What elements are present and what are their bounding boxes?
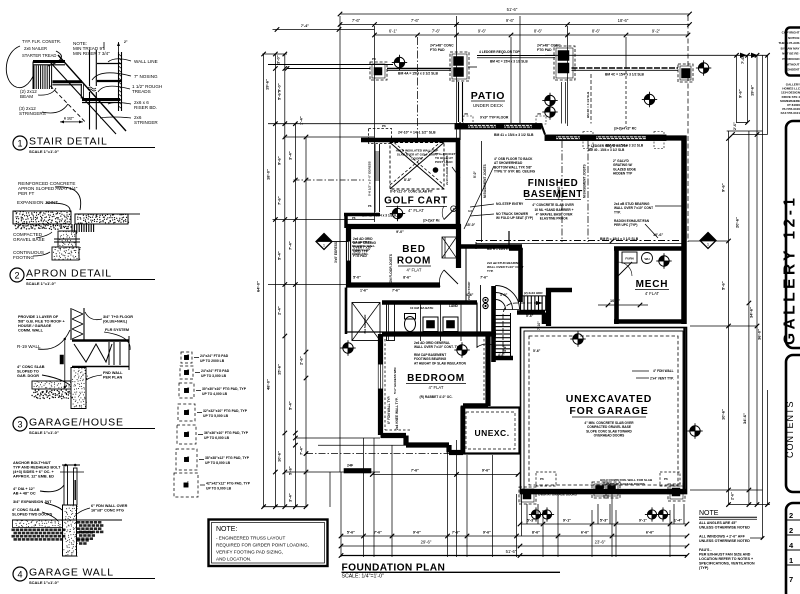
svg-text:9'-6": 9'-6" bbox=[478, 28, 487, 33]
crosshair symbol patio bbox=[642, 92, 657, 107]
svg-text:4" FLAT: 4" FLAT bbox=[407, 268, 422, 273]
garage wall detail drawing bbox=[12, 461, 128, 557]
title block: plan name bbox=[782, 121, 800, 348]
svg-text:BM R = 15/4 x 3 1/2 SLB: BM R = 15/4 x 3 1/2 SLB bbox=[487, 247, 524, 251]
pad D drop lines bbox=[459, 74, 592, 124]
svg-text:9'-6": 9'-6" bbox=[277, 156, 282, 165]
svg-text:NO-STEP ENTRY: NO-STEP ENTRY bbox=[496, 202, 524, 206]
golf cart room label bbox=[384, 196, 448, 214]
crosshair at golf cart bbox=[390, 206, 405, 221]
svg-text:34'-6": 34'-6" bbox=[742, 413, 747, 424]
svg-text:TYPE 'X' GYP. BD. CEILING: TYPE 'X' GYP. BD. CEILING bbox=[494, 170, 536, 174]
garage outline bbox=[521, 328, 688, 495]
crosshairs at garage doors right bbox=[645, 507, 659, 521]
stair upper flight treads bbox=[520, 296, 547, 310]
svg-text:APPROX. 12" EMB. ED: APPROX. 12" EMB. ED bbox=[13, 475, 54, 479]
svg-text:2'x4' VENT TYP.: 2'x4' VENT TYP. bbox=[650, 377, 674, 381]
svg-text:UP TO 5,000 LB: UP TO 5,000 LB bbox=[203, 414, 229, 418]
svg-text:REQUIRED FOR GIRDER POINT LOAD: REQUIRED FOR GIRDER POINT LOADING, bbox=[216, 543, 309, 548]
svg-text:34'-6": 34'-6" bbox=[749, 307, 754, 318]
svg-text:SLOPED TO: SLOPED TO bbox=[17, 370, 39, 374]
note box bbox=[209, 520, 328, 567]
svg-text:PER PLAN: PER PLAN bbox=[103, 376, 122, 380]
svg-text:M BASEMENT JOISTS: M BASEMENT JOISTS bbox=[483, 164, 487, 198]
svg-text:TYP AND REDHEAD BOLT: TYP AND REDHEAD BOLT bbox=[13, 466, 61, 470]
finished basement label bbox=[523, 178, 583, 221]
svg-text:FURN: FURN bbox=[625, 257, 633, 261]
svg-text:(GLUE+NAIL): (GLUE+NAIL) bbox=[103, 320, 128, 324]
svg-text:3: 3 bbox=[17, 420, 22, 430]
patio notes bbox=[435, 144, 636, 178]
svg-text:NOTE:: NOTE: bbox=[216, 526, 237, 533]
svg-text:8'-6": 8'-6" bbox=[592, 28, 601, 33]
svg-text:1: 1 bbox=[17, 139, 22, 149]
svg-text:9'-6": 9'-6" bbox=[721, 183, 726, 192]
svg-text:2'-4": 2'-4" bbox=[277, 306, 282, 315]
svg-text:HIDDEN TYP: HIDDEN TYP bbox=[613, 172, 633, 176]
svg-text:F: F bbox=[188, 430, 190, 434]
svg-text:MA SHOWER: MA SHOWER bbox=[363, 314, 367, 334]
svg-text:(3+3)x4'x3" RC: (3+3)x4'x3" RC bbox=[614, 127, 637, 131]
svg-text:BM 40 - 15/4 x 3 1/2 SLB: BM 40 - 15/4 x 3 1/2 SLB bbox=[588, 148, 625, 152]
stair lower flight treads bbox=[496, 313, 511, 356]
svg-text:6 1/2": 6 1/2" bbox=[64, 117, 74, 121]
svg-text:7'-4": 7'-4" bbox=[301, 24, 309, 28]
svg-text:18'-0": 18'-0" bbox=[266, 169, 271, 180]
svg-text:2x6 NAILER: 2x6 NAILER bbox=[24, 46, 47, 51]
svg-text:WALL OVER 7'x10" CONT. TYP.: WALL OVER 7'x10" CONT. TYP. bbox=[414, 345, 462, 349]
crosshair in garage bbox=[570, 331, 585, 346]
svg-text:WITHOUT: WITHOUT bbox=[786, 62, 800, 66]
footing pad P3 (double) bbox=[554, 46, 575, 80]
svg-text:OVER AT GARAGE DOORS: OVER AT GARAGE DOORS bbox=[538, 493, 577, 497]
svg-text:W/ FOLD UP SEAT (TYP): W/ FOLD UP SEAT (TYP) bbox=[496, 216, 533, 220]
stair detail drawing bbox=[6, 39, 162, 134]
svg-text:TYP.: TYP. bbox=[614, 210, 621, 214]
svg-text:MIN RISER 7 3/4": MIN RISER 7 3/4" bbox=[73, 51, 110, 56]
svg-text:3'x5' EGRESS: 3'x5' EGRESS bbox=[334, 242, 338, 263]
svg-text:7'-10": 7'-10" bbox=[537, 321, 541, 330]
svg-text:BM 4D = 3 1/2 SLB: BM 4D = 3 1/2 SLB bbox=[586, 91, 590, 118]
hall fixtures small circles bbox=[449, 297, 488, 308]
svg-text:STRINGERS: STRINGERS bbox=[19, 111, 46, 116]
svg-text:P6: P6 bbox=[465, 112, 469, 116]
svg-text:BM 4C = 15/4 x 3 1/2 SLB: BM 4C = 15/4 x 3 1/2 SLB bbox=[605, 73, 645, 77]
svg-text:32"x32"x10" FTG PAD, TYP: 32"x32"x10" FTG PAD, TYP bbox=[203, 409, 248, 413]
title block: sheet cells bbox=[786, 503, 800, 594]
girder line BM A with footing pads (top row) bbox=[285, 50, 678, 77]
svg-text:ALL WINDOWS + 2'-6" AFF: ALL WINDOWS + 2'-6" AFF bbox=[699, 535, 746, 539]
svg-text:POUR STRIP: POUR STRIP bbox=[467, 282, 471, 300]
svg-text:UP TO 6,000 LB: UP TO 6,000 LB bbox=[204, 436, 230, 440]
crosshair symbol top-left bbox=[392, 55, 407, 70]
svg-text:ROOM: ROOM bbox=[397, 256, 431, 267]
apron detail title bbox=[10, 268, 24, 282]
foundation plan title bbox=[342, 563, 561, 580]
svg-text:BY LAW MAY: BY LAW MAY bbox=[781, 46, 800, 50]
svg-text:2: 2 bbox=[789, 526, 793, 535]
svg-text:5'-6": 5'-6" bbox=[721, 281, 726, 290]
svg-text:9'-6": 9'-6" bbox=[482, 468, 490, 472]
girder BM R dashed bbox=[476, 231, 683, 249]
svg-text:UP TO 4,000 LB: UP TO 4,000 LB bbox=[202, 392, 228, 396]
svg-text:BM 41 = 15/4 x 3 1/2 SLB: BM 41 = 15/4 x 3 1/2 SLB bbox=[494, 133, 534, 137]
svg-text:8'-6": 8'-6" bbox=[403, 276, 411, 280]
svg-text:9'-1": 9'-1" bbox=[639, 519, 647, 523]
garage door pads bbox=[519, 472, 685, 504]
svg-text:7'-6": 7'-6" bbox=[432, 28, 441, 33]
stair enclosure walls bbox=[494, 286, 573, 362]
svg-text:7'-6": 7'-6" bbox=[277, 196, 282, 205]
svg-text:9'-6": 9'-6" bbox=[413, 531, 421, 535]
svg-text:ALL ANGLES ARE 45°: ALL ANGLES ARE 45° bbox=[699, 521, 737, 525]
svg-text:PER FT: PER FT bbox=[18, 191, 35, 196]
svg-text:10 GM MA BATH: 10 GM MA BATH bbox=[410, 306, 433, 310]
right side dimension chains bbox=[545, 53, 770, 540]
svg-text:FTG PAD: FTG PAD bbox=[430, 48, 445, 52]
svg-text:2: 2 bbox=[14, 271, 19, 281]
stair detail title bbox=[13, 136, 27, 150]
mech room walls bbox=[614, 249, 683, 325]
svg-text:F: F bbox=[188, 353, 190, 357]
svg-text:9'-0": 9'-0" bbox=[277, 83, 282, 92]
svg-text:DOORS: DOORS bbox=[411, 157, 422, 161]
svg-text:9'-0": 9'-0" bbox=[396, 230, 404, 234]
finished basement west-mid walls bbox=[460, 141, 588, 302]
svg-text:GARAGE WALL: GARAGE WALL bbox=[29, 567, 114, 579]
svg-text:COPYRIGHT: COPYRIGHT bbox=[782, 31, 800, 35]
golf cart north wall bbox=[361, 122, 460, 226]
svg-text:- ENGINEERED TRUSS LAYOUT: - ENGINEERED TRUSS LAYOUT bbox=[216, 536, 285, 541]
lower bedroom label bbox=[406, 373, 466, 399]
svg-text:OVERHEAD DOORS: OVERHEAD DOORS bbox=[594, 434, 625, 438]
svg-text:F: F bbox=[187, 481, 189, 485]
upper bedroom label bbox=[360, 244, 431, 293]
svg-text:PER UPC (TYP): PER UPC (TYP) bbox=[614, 223, 637, 227]
svg-text:STARTER TREAD: STARTER TREAD bbox=[22, 53, 56, 58]
svg-text:P6: P6 bbox=[540, 477, 544, 481]
svg-text:UNDER DECK: UNDER DECK bbox=[473, 103, 504, 108]
svg-text:64'-0": 64'-0" bbox=[256, 281, 261, 292]
svg-text:APRON DETAIL: APRON DETAIL bbox=[26, 268, 112, 280]
svg-text:BASEMENT: BASEMENT bbox=[523, 189, 583, 200]
svg-text:5'-6": 5'-6" bbox=[347, 531, 355, 535]
svg-text:4" FLAT: 4" FLAT bbox=[408, 208, 424, 213]
svg-text:7'-6": 7'-6" bbox=[480, 276, 488, 280]
svg-text:15'-0": 15'-0" bbox=[466, 223, 476, 227]
extra small annotations bbox=[352, 214, 541, 358]
svg-text:CONTENTS: CONTENTS bbox=[785, 401, 795, 459]
svg-text:FND WALL: FND WALL bbox=[103, 371, 123, 375]
crosshair lower bedroom bbox=[454, 342, 469, 357]
garage/house detail drawing bbox=[17, 308, 133, 409]
svg-text:10'-6": 10'-6" bbox=[277, 451, 282, 462]
unexcavated label bbox=[566, 393, 652, 438]
svg-text:3'-0": 3'-0" bbox=[276, 55, 281, 64]
svg-text:FTG PAD: FTG PAD bbox=[537, 48, 552, 52]
svg-text:TYP. FLR. CONSTR.: TYP. FLR. CONSTR. bbox=[22, 39, 61, 44]
svg-text:4 LEDGER REQD-ON TOP: 4 LEDGER REQD-ON TOP bbox=[479, 50, 520, 54]
svg-text:2'-6": 2'-6" bbox=[299, 356, 304, 365]
crosshair right of garage bbox=[687, 423, 702, 438]
svg-text:BM 4C = 15/4 x 3 1/2 SLB: BM 4C = 15/4 x 3 1/2 SLB bbox=[490, 60, 528, 64]
svg-text:DN FLOOR JOISTS: DN FLOOR JOISTS bbox=[389, 254, 393, 283]
basement northeast wall corner bbox=[664, 135, 686, 140]
svg-text:5'-4": 5'-4" bbox=[288, 401, 293, 410]
svg-text:9'-1": 9'-1" bbox=[563, 519, 571, 523]
svg-text:THESE PLANS: THESE PLANS bbox=[778, 41, 799, 45]
title block: copyright box bbox=[778, 28, 800, 76]
svg-text:P6: P6 bbox=[368, 204, 372, 208]
svg-text:3'-4": 3'-4" bbox=[288, 151, 293, 160]
svg-text:RISER BD.: RISER BD. bbox=[134, 105, 157, 110]
svg-text:8'-8": 8'-8" bbox=[404, 178, 412, 182]
lower bedroom walls bbox=[378, 334, 496, 453]
bottom dimension lines bbox=[330, 438, 689, 558]
svg-text:10'-6": 10'-6" bbox=[721, 409, 726, 420]
svg-text:5'-6": 5'-6" bbox=[533, 349, 541, 353]
svg-text:3/4" T+G FLOOR: 3/4" T+G FLOOR bbox=[103, 315, 133, 319]
svg-text:PRODUCED: PRODUCED bbox=[782, 57, 800, 61]
svg-text:4: 4 bbox=[17, 570, 22, 580]
svg-text:GRAVEL BASE: GRAVEL BASE bbox=[13, 237, 45, 242]
crosshair pair at patio wall bbox=[542, 93, 557, 108]
note text at upper bedroom wall bbox=[353, 237, 376, 258]
right note block bbox=[699, 510, 757, 570]
svg-text:MECH: MECH bbox=[636, 279, 669, 290]
svg-text:19'-6": 19'-6" bbox=[265, 79, 270, 90]
svg-text:NOTE: NOTE bbox=[699, 510, 719, 517]
svg-text:ANCHOR BOLT+NUT: ANCHOR BOLT+NUT bbox=[13, 461, 51, 465]
svg-text:+4" RISE: +4" RISE bbox=[557, 187, 561, 200]
svg-text:SPECIFICATIONS, VENTILATION: SPECIFICATIONS, VENTILATION bbox=[699, 562, 755, 566]
section diamond right bbox=[700, 233, 716, 249]
svg-text:CONSENT: CONSENT bbox=[785, 68, 800, 72]
svg-text:7: 7 bbox=[789, 575, 793, 584]
upper bedroom walls bbox=[346, 225, 461, 288]
svg-text:2": 2" bbox=[124, 40, 128, 44]
svg-text:29'-6": 29'-6" bbox=[421, 540, 432, 545]
svg-text:P6: P6 bbox=[352, 216, 356, 220]
hall notes bbox=[487, 261, 524, 273]
svg-text:5/8" G.B. FILE TO ROOF +: 5/8" G.B. FILE TO ROOF + bbox=[18, 320, 66, 324]
svg-text:FTG PAD: FTG PAD bbox=[353, 254, 367, 258]
svg-text:19'-6": 19'-6" bbox=[750, 85, 755, 96]
bath cells bbox=[352, 303, 433, 341]
basement interior notes bbox=[464, 157, 536, 229]
svg-text:GARAGE/HOUSE: GARAGE/HOUSE bbox=[29, 417, 124, 429]
svg-text:POST LOAD: POST LOAD bbox=[435, 160, 453, 164]
svg-text:VERIFY FOOTING PAD SIZING,: VERIFY FOOTING PAD SIZING, bbox=[216, 550, 283, 555]
svg-text:BM R = 15/4 x 3 1/2 SLB: BM R = 15/4 x 3 1/2 SLB bbox=[600, 237, 639, 241]
svg-text:FAX 555-0101: FAX 555-0101 bbox=[781, 111, 800, 115]
garage/house detail title bbox=[13, 417, 27, 431]
svg-text:7'-6": 7'-6" bbox=[740, 55, 745, 64]
svg-text:5'x7' EGRESS WIN: 5'x7' EGRESS WIN bbox=[393, 368, 397, 394]
svg-text:F: F bbox=[188, 455, 190, 459]
svg-text:24'-10" = 14'-1 1/2" SLB: 24'-10" = 14'-1 1/2" SLB bbox=[398, 131, 436, 135]
svg-text:P6: P6 bbox=[664, 477, 668, 481]
svg-text:COMM. WALL: COMM. WALL bbox=[18, 329, 44, 333]
unexc room bbox=[462, 408, 520, 454]
svg-text:SCALE 1"=1'-0": SCALE 1"=1'-0" bbox=[29, 149, 59, 154]
garage wall detail title bbox=[13, 567, 27, 581]
svg-text:2'-6": 2'-6" bbox=[733, 122, 737, 130]
svg-text:4" FDN WALL: 4" FDN WALL bbox=[653, 369, 674, 373]
svg-text:NOT BE RE-: NOT BE RE- bbox=[782, 52, 799, 56]
svg-text:4" CONC SLAB: 4" CONC SLAB bbox=[17, 365, 45, 369]
crosshair left of bedroom bbox=[340, 340, 355, 355]
patio label bbox=[471, 90, 506, 108]
svg-text:5'-4": 5'-4" bbox=[277, 251, 282, 260]
left side dimension chains bbox=[256, 24, 520, 509]
svg-text:7'-6": 7'-6" bbox=[374, 531, 382, 535]
svg-text:3'-4": 3'-4" bbox=[288, 493, 293, 502]
crosshair symbol top-right bbox=[696, 60, 711, 75]
svg-text:BEAM: BEAM bbox=[20, 94, 33, 99]
svg-text:GOLF CART: GOLF CART bbox=[384, 196, 448, 207]
svg-text:WALL LINE: WALL LINE bbox=[134, 59, 158, 64]
svg-text:24"x24" FTG PAD: 24"x24" FTG PAD bbox=[200, 354, 229, 358]
svg-text:F: F bbox=[188, 368, 190, 372]
svg-text:UP TO 8,000 LB: UP TO 8,000 LB bbox=[205, 461, 231, 465]
east basement wall bbox=[681, 136, 687, 325]
svg-text:PROVIDE 1 LAYER OF: PROVIDE 1 LAYER OF bbox=[18, 315, 59, 319]
svg-text:15'-6": 15'-6" bbox=[277, 364, 282, 375]
svg-text:9'x9" TYP FLOOR: 9'x9" TYP FLOOR bbox=[480, 116, 509, 120]
svg-text:(4+3) SIDES + 6" OC. +: (4+3) SIDES + 6" OC. + bbox=[13, 470, 55, 474]
svg-text:BEDROOM: BEDROOM bbox=[407, 373, 465, 384]
stair direction path bbox=[503, 291, 543, 354]
svg-text:PATIO: PATIO bbox=[471, 90, 506, 102]
svg-text:F: F bbox=[188, 408, 190, 412]
svg-text:STAIR DETAIL: STAIR DETAIL bbox=[29, 136, 108, 148]
svg-text:1'-6": 1'-6" bbox=[360, 289, 368, 293]
title block: contents bbox=[785, 355, 800, 492]
svg-text:FOOTING: FOOTING bbox=[13, 255, 34, 260]
patio window wall (right segment) bbox=[541, 124, 666, 149]
svg-text:7'-6": 7'-6" bbox=[392, 289, 400, 293]
svg-text:7'-6": 7'-6" bbox=[411, 468, 419, 472]
svg-text:HOUSE / GARAGE: HOUSE / GARAGE bbox=[18, 324, 52, 328]
svg-text:UNEXCAVATED: UNEXCAVATED bbox=[566, 393, 652, 405]
golf cart pit with X brace bbox=[390, 143, 477, 220]
footing pad P4 bbox=[678, 64, 693, 82]
svg-text:ELASTINE PROOF.: ELASTINE PROOF. bbox=[540, 217, 569, 221]
garage notes bbox=[533, 369, 674, 497]
svg-text:LAND: LAND bbox=[449, 304, 459, 308]
svg-text:10'-6": 10'-6" bbox=[610, 299, 621, 303]
svg-text:FINISHED: FINISHED bbox=[528, 178, 579, 189]
svg-text:30"x30"x10" FTG PAD, TYP: 30"x30"x10" FTG PAD, TYP bbox=[202, 387, 247, 391]
svg-text:5'-8": 5'-8" bbox=[288, 466, 293, 475]
svg-text:UP TO 3,000 LB: UP TO 3,000 LB bbox=[201, 374, 227, 378]
svg-text:2'-6": 2'-6" bbox=[731, 492, 735, 500]
svg-text:42"x42"x12" FTG PAD, TYP: 42"x42"x12" FTG PAD, TYP bbox=[206, 482, 251, 486]
svg-text:R-19 WALL: R-19 WALL bbox=[17, 344, 41, 349]
svg-text:5'-3": 5'-3" bbox=[600, 519, 608, 523]
svg-text:9'-6": 9'-6" bbox=[738, 89, 743, 98]
svg-text:10'-6": 10'-6" bbox=[653, 233, 664, 237]
svg-text:UNEXC.: UNEXC. bbox=[474, 428, 509, 438]
svg-text:FLR SYSTEM: FLR SYSTEM bbox=[105, 328, 129, 332]
svg-text:24"x48" CONC: 24"x48" CONC bbox=[537, 44, 561, 48]
svg-text:18'-6": 18'-6" bbox=[618, 18, 629, 23]
svg-text:SLOPED TWD DOORS: SLOPED TWD DOORS bbox=[12, 513, 53, 517]
svg-text:P6: P6 bbox=[382, 124, 386, 128]
crosshair at mech bbox=[656, 253, 671, 268]
section diamond left bbox=[332, 241, 348, 243]
door arc at bottom of stairs bbox=[477, 336, 496, 348]
svg-text:8'-6"x11'-0" CONC SLAB PIT: 8'-6"x11'-0" CONC SLAB PIT bbox=[390, 190, 433, 194]
svg-text:24"x24" FTG PAD: 24"x24" FTG PAD bbox=[201, 369, 230, 373]
svg-text:(2+2)x3' Rc: (2+2)x3' Rc bbox=[423, 219, 440, 223]
svg-text:1'-4": 1'-4" bbox=[674, 519, 682, 523]
footing pad legend bbox=[174, 352, 251, 497]
svg-text:7'-6": 7'-6" bbox=[352, 18, 361, 23]
svg-text:4' FLAT: 4' FLAT bbox=[645, 291, 660, 296]
svg-text:UP TO 2000 LB: UP TO 2000 LB bbox=[200, 359, 225, 363]
svg-text:FAU'S -: FAU'S - bbox=[699, 548, 712, 552]
svg-text:STRINGER: STRINGER bbox=[134, 120, 158, 125]
svg-text:(TYP): (TYP) bbox=[699, 566, 709, 570]
svg-text:P8: P8 bbox=[372, 57, 376, 61]
footing pad P1 bbox=[370, 62, 387, 80]
svg-text:9'-6": 9'-6" bbox=[483, 531, 491, 535]
svg-text:M BASEMENT JOISTS: M BASEMENT JOISTS bbox=[583, 164, 587, 198]
svg-text:6" FDN WALL OVER: 6" FDN WALL OVER bbox=[91, 504, 128, 508]
svg-text:6'-6": 6'-6" bbox=[581, 531, 589, 535]
svg-text:SCALE 1"=1'-0": SCALE 1"=1'-0" bbox=[29, 430, 59, 435]
svg-text:UP TO 9,000 LB: UP TO 9,000 LB bbox=[206, 486, 232, 490]
mech room label and equipment bbox=[622, 252, 669, 296]
svg-text:51'-6": 51'-6" bbox=[507, 7, 518, 12]
svg-text:GALLERY 12-1: GALLERY 12-1 bbox=[782, 194, 799, 345]
svg-text:2x4 KNEE WALL TYP.: 2x4 KNEE WALL TYP. bbox=[395, 397, 399, 430]
svg-text:(R) RABBET 4'-0" OC.: (R) RABBET 4'-0" OC. bbox=[420, 395, 453, 399]
svg-text:38"x38"x12" FTG PAD, TYP: 38"x38"x12" FTG PAD, TYP bbox=[205, 456, 250, 460]
svg-text:2: 2 bbox=[789, 511, 793, 520]
svg-text:20'-6": 20'-6" bbox=[735, 217, 740, 228]
svg-text:PER EXHAUST FAN SIZE AND: PER EXHAUST FAN SIZE AND bbox=[699, 553, 751, 557]
hall walls and landing bbox=[346, 248, 522, 334]
svg-text:51'-6": 51'-6" bbox=[506, 549, 517, 554]
svg-text:P6: P6 bbox=[538, 112, 542, 116]
svg-text:SCALE 1"=1'-0": SCALE 1"=1'-0" bbox=[29, 580, 59, 585]
svg-text:6" FDN WALL TYP.: 6" FDN WALL TYP. bbox=[387, 395, 391, 424]
svg-text:TYP.: TYP. bbox=[487, 269, 493, 273]
svg-text:8'-6": 8'-6" bbox=[534, 28, 543, 33]
svg-text:SCALE: 1/4"=1'-0": SCALE: 1/4"=1'-0" bbox=[342, 574, 384, 580]
svg-text:9'-0": 9'-0" bbox=[473, 171, 477, 178]
svg-text:4'-6": 4'-6" bbox=[498, 353, 505, 357]
svg-text:4" CONCRETE SLAB OVER: 4" CONCRETE SLAB OVER bbox=[532, 203, 574, 207]
svg-text:BED: BED bbox=[402, 244, 426, 255]
svg-text:SCALE 1"=1'-0": SCALE 1"=1'-0" bbox=[26, 281, 56, 286]
notes above mech bbox=[598, 202, 683, 307]
svg-text:6'-6": 6'-6" bbox=[646, 531, 654, 535]
svg-text:4'-6": 4'-6" bbox=[503, 345, 507, 352]
bedroom interior dims bbox=[352, 230, 488, 283]
apron detail drawing bbox=[13, 181, 140, 260]
svg-text:5'-6": 5'-6" bbox=[526, 314, 534, 318]
svg-text:TREADS: TREADS bbox=[132, 89, 151, 94]
svg-text:6'-1": 6'-1" bbox=[389, 28, 398, 33]
footing pad P2 (double) bbox=[450, 52, 469, 81]
golf cart west wall (thin) bbox=[344, 124, 392, 228]
svg-text:1: 1 bbox=[789, 556, 793, 565]
svg-text:AT HEIGHT OF SLAB INSULATION: AT HEIGHT OF SLAB INSULATION bbox=[414, 361, 467, 365]
